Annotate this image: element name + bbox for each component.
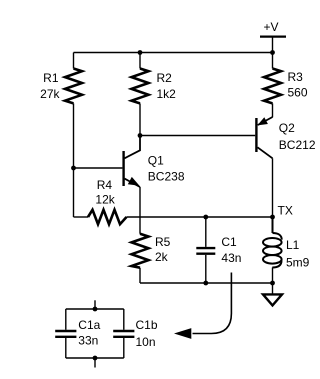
svg-text:+V: +V (264, 20, 279, 34)
svg-text:C1a: C1a (78, 318, 100, 332)
wire R2 bottom lead (139, 103, 141, 135)
resistor R3 (264, 69, 281, 104)
transistor Q1 (124, 136, 140, 188)
svg-text:L1: L1 (286, 238, 300, 252)
svg-text:BC238: BC238 (148, 169, 185, 183)
transistor Q2 (256, 117, 272, 158)
node box top (93, 307, 98, 312)
svg-text:12k: 12k (95, 193, 115, 207)
wire box top stub (94, 300, 96, 309)
svg-text:R1: R1 (43, 71, 59, 85)
R4 value label (95, 178, 115, 207)
svg-text:43n: 43n (221, 251, 241, 265)
wire Q2 collector down to TX (272, 158, 274, 217)
svg-text:Q2: Q2 (279, 121, 295, 135)
wire bottom rail (140, 282, 273, 284)
svg-text:10n: 10n (136, 335, 156, 349)
resistor R1 (65, 69, 82, 104)
node TX (270, 215, 275, 220)
wire Q2 base (140, 135, 255, 137)
svg-text:C1b: C1b (136, 318, 158, 332)
R3 value label (288, 70, 308, 100)
wire mid rail left (74, 216, 89, 218)
svg-text:Q1: Q1 (148, 154, 164, 168)
R5 value label (155, 235, 171, 264)
node Q1 collector (138, 133, 143, 138)
svg-text:2k: 2k (155, 250, 169, 264)
wire left vertical lower (73, 103, 75, 217)
R2 value label (157, 71, 177, 101)
svg-text:1k2: 1k2 (157, 87, 177, 101)
Q2 label (279, 121, 316, 152)
svg-text:33n: 33n (78, 334, 98, 348)
resistor R2 (132, 69, 149, 104)
node +V rail (270, 50, 275, 55)
wire mid rail right (127, 216, 273, 218)
wire top rail (74, 52, 273, 54)
node Q1 base (71, 166, 76, 171)
L1 value label (286, 238, 310, 270)
svg-text:C1: C1 (221, 235, 237, 249)
+V power symbol (260, 37, 286, 53)
node R2 top (138, 50, 143, 55)
C1 value label (221, 235, 241, 265)
capacitor C1a (55, 309, 76, 358)
node box bottom (93, 356, 98, 361)
svg-text:27k: 27k (40, 87, 60, 101)
svg-text:5m9: 5m9 (286, 256, 310, 270)
callout arrow (174, 273, 231, 339)
C1b value label (136, 318, 158, 349)
wire Q1 emitter down (139, 187, 141, 234)
capacitor C1 (196, 217, 215, 283)
R1 value label (40, 71, 60, 101)
inductor L1 (263, 217, 282, 283)
node L1 bottom (270, 281, 275, 286)
wire R3 bottom lead (272, 103, 274, 117)
capacitor C1b (113, 309, 134, 358)
node C1 bottom (203, 281, 208, 286)
wire R3 top lead (272, 53, 274, 69)
ground (263, 283, 282, 305)
svg-text:560: 560 (288, 86, 308, 100)
wire Q1 base (74, 167, 123, 169)
svg-text:BC212: BC212 (279, 138, 316, 152)
node C1 top (203, 215, 208, 220)
wire box bottom stub (94, 358, 96, 368)
resistor R5 (132, 234, 149, 268)
svg-text:TX: TX (278, 203, 293, 217)
wire left vertical upper (73, 53, 75, 69)
wire box bottom (66, 357, 124, 359)
svg-text:R3: R3 (288, 70, 304, 84)
svg-text:R4: R4 (97, 178, 113, 192)
resistor R4 (88, 210, 127, 224)
C1a value label (78, 318, 100, 347)
wire box top (66, 308, 124, 310)
wire R5 bottom lead (139, 268, 141, 283)
svg-text:R5: R5 (155, 235, 171, 249)
wire R2 top lead (139, 53, 141, 69)
Q1 label (148, 154, 185, 184)
svg-text:R2: R2 (157, 71, 173, 85)
